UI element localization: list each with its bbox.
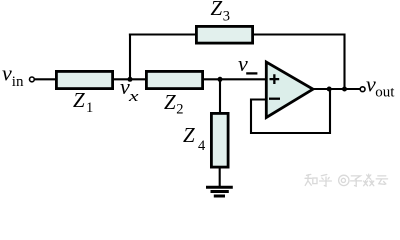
watermark zhihu bbox=[305, 174, 388, 186]
svg-text:2: 2 bbox=[176, 102, 183, 118]
node vx bbox=[128, 77, 133, 82]
svg-text:1: 1 bbox=[86, 100, 93, 116]
wire node vx up to top feedback bbox=[129, 34, 131, 81]
svg-text:in: in bbox=[12, 74, 24, 90]
node output junction lower bbox=[327, 87, 332, 92]
resistor Z2 bbox=[146, 71, 202, 88]
svg-text:v: v bbox=[2, 60, 12, 85]
node output junction upper bbox=[342, 87, 347, 92]
input terminal bbox=[30, 77, 35, 82]
resistor Z4 bbox=[211, 113, 228, 167]
wire op-amp output to terminal bbox=[311, 88, 360, 90]
svg-text:Z: Z bbox=[211, 0, 223, 20]
svg-text:Z: Z bbox=[183, 123, 195, 147]
wire Z4 to ground bbox=[219, 167, 221, 187]
svg-text:Z: Z bbox=[164, 90, 176, 114]
wire top feedback left segment bbox=[129, 33, 196, 35]
svg-text:4: 4 bbox=[198, 138, 206, 154]
svg-text:Z: Z bbox=[73, 88, 85, 112]
wire node v- down to Z4 bbox=[219, 79, 221, 113]
wire input terminal to Z1 bbox=[34, 78, 56, 80]
svg-text:out: out bbox=[375, 85, 395, 101]
wire Z2 to op-amp noninverting input bbox=[203, 78, 266, 80]
node v- bbox=[218, 77, 223, 82]
wire top feedback right segment bbox=[254, 33, 346, 35]
svg-text:3: 3 bbox=[223, 8, 230, 24]
wire top feedback down to output bbox=[343, 34, 345, 90]
ground bbox=[206, 187, 233, 196]
resistor Z3 bbox=[196, 26, 252, 43]
svg-text:x: x bbox=[128, 89, 139, 105]
op-amp U1 bbox=[266, 62, 313, 118]
wire Z1 to Z2 through node vx bbox=[113, 78, 146, 80]
output terminal bbox=[360, 87, 365, 92]
resistor Z1 bbox=[56, 71, 112, 88]
wire inverting input feedback loop bbox=[251, 89, 330, 133]
